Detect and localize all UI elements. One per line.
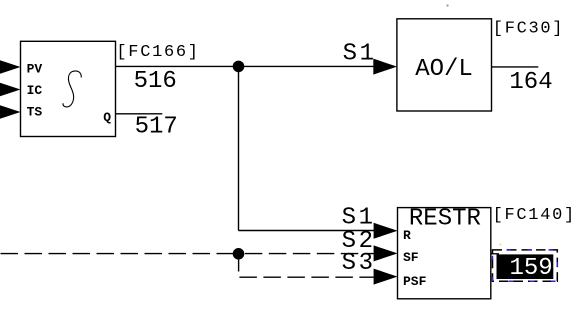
value label 164 bbox=[509, 69, 552, 96]
pin label IC bbox=[27, 83, 43, 98]
function block U1 integrator [FC166] body bbox=[21, 41, 116, 136]
stray pixel artifact near display bbox=[500, 244, 502, 246]
input arrow TS bbox=[0, 104, 21, 120]
svg-text:S1: S1 bbox=[343, 41, 377, 68]
svg-text:R: R bbox=[403, 228, 411, 243]
svg-text:PSF: PSF bbox=[403, 274, 427, 289]
dashed wire to RESTR SF input bbox=[245, 253, 375, 255]
pin label PV bbox=[27, 61, 43, 76]
block tag label [FC30] bbox=[493, 19, 564, 38]
svg-text:159: 159 bbox=[510, 255, 553, 282]
wire vertical from J1 down bbox=[238, 66, 240, 230]
block name RESTR bbox=[409, 206, 481, 233]
pin label R bbox=[403, 228, 411, 243]
svg-text:516: 516 bbox=[134, 68, 177, 95]
value label 517 bbox=[135, 113, 178, 140]
pin label TS bbox=[27, 105, 43, 120]
net label S1 (lower) bbox=[342, 205, 376, 232]
wire Q output stub bbox=[116, 113, 163, 115]
svg-text:PV: PV bbox=[27, 61, 43, 76]
node junction J1 bbox=[233, 61, 245, 73]
input arrow S3 into RESTR PSF bbox=[374, 269, 398, 285]
svg-text:RESTR: RESTR bbox=[409, 206, 481, 233]
svg-text:TS: TS bbox=[27, 105, 43, 120]
svg-text:[FC30]: [FC30] bbox=[493, 19, 564, 38]
wire horizontal to RESTR R input bbox=[239, 230, 375, 232]
dashed wire left segment bbox=[1, 253, 234, 255]
stray pixel artifact top bbox=[447, 5, 449, 7]
function block U2 AO/L [FC30] body bbox=[397, 19, 492, 111]
svg-text:IC: IC bbox=[27, 83, 43, 98]
wire net 516 from U1 output to AO/L input bbox=[116, 65, 375, 67]
net label S1 (top) bbox=[343, 41, 377, 68]
net label S3 bbox=[342, 250, 376, 277]
pin label SF bbox=[403, 250, 419, 265]
node junction J2 bbox=[233, 248, 245, 260]
input arrow PV bbox=[0, 59, 21, 75]
function block U3 RESTR [FC140] body bbox=[398, 208, 491, 299]
svg-text:517: 517 bbox=[135, 113, 178, 140]
dashed wire to RESTR PSF input bbox=[239, 276, 374, 278]
svg-text:164: 164 bbox=[509, 69, 552, 96]
integral symbol inside U1 bbox=[63, 71, 81, 107]
pin label PSF bbox=[403, 274, 427, 289]
block tag label [FC140] bbox=[493, 206, 576, 225]
value display 159 inverse box bbox=[497, 254, 554, 279]
svg-text:AO/L: AO/L bbox=[415, 56, 473, 83]
input arrow IC bbox=[0, 82, 21, 98]
input arrow S2 into RESTR SF bbox=[374, 245, 398, 261]
pin label Q bbox=[103, 110, 111, 125]
input arrow S1 into RESTR R bbox=[374, 223, 398, 239]
dashed wire vertical from J2 bbox=[238, 260, 240, 272]
selection marquee around 159 bbox=[491, 250, 557, 281]
value label 159 bbox=[510, 255, 553, 282]
svg-text:SF: SF bbox=[403, 250, 419, 265]
svg-text:[FC166]: [FC166] bbox=[116, 43, 199, 62]
value label 516 bbox=[134, 68, 177, 95]
input arrow S1 into AO/L bbox=[373, 59, 397, 75]
svg-text:[FC140]: [FC140] bbox=[493, 206, 576, 225]
svg-text:S3: S3 bbox=[342, 250, 376, 277]
svg-text:Q: Q bbox=[103, 110, 111, 125]
wire AO/L output stub bbox=[492, 66, 539, 68]
net label S2 bbox=[342, 228, 376, 255]
block name AO/L bbox=[415, 56, 473, 83]
block tag label [FC166] bbox=[116, 43, 199, 62]
